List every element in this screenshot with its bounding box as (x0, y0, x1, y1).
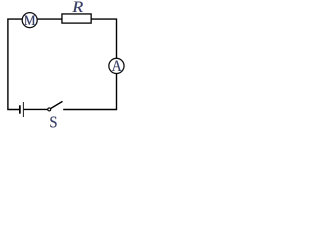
svg-text:S: S (49, 114, 57, 131)
motor label M (23, 12, 36, 29)
svg-text:M: M (24, 12, 36, 29)
battery BT1 negative plate (short thick) (19, 105, 21, 113)
battery BT1 positive plate (long thin) (22, 102, 24, 117)
switch label S (49, 114, 58, 132)
svg-text:R: R (71, 0, 84, 16)
resistor R1 body (62, 14, 91, 23)
wire switch to battery (24, 108, 48, 110)
svg-text:A: A (112, 58, 122, 75)
switch S1 blade (51, 101, 63, 108)
ammeter label A (111, 58, 122, 75)
resistor label R (71, 0, 84, 16)
switch S1 hinge (48, 108, 51, 111)
wire left loop: top-left stub, left vertical, bottom-left stub (8, 19, 22, 109)
ammeter U2 circle (109, 58, 124, 73)
motor U1 circle (22, 13, 37, 28)
wire resistor to top-right corner, down to ammeter (91, 19, 116, 58)
wire ammeter down, bottom-right corner, to switch (63, 74, 116, 110)
wire motor to resistor (38, 18, 62, 20)
